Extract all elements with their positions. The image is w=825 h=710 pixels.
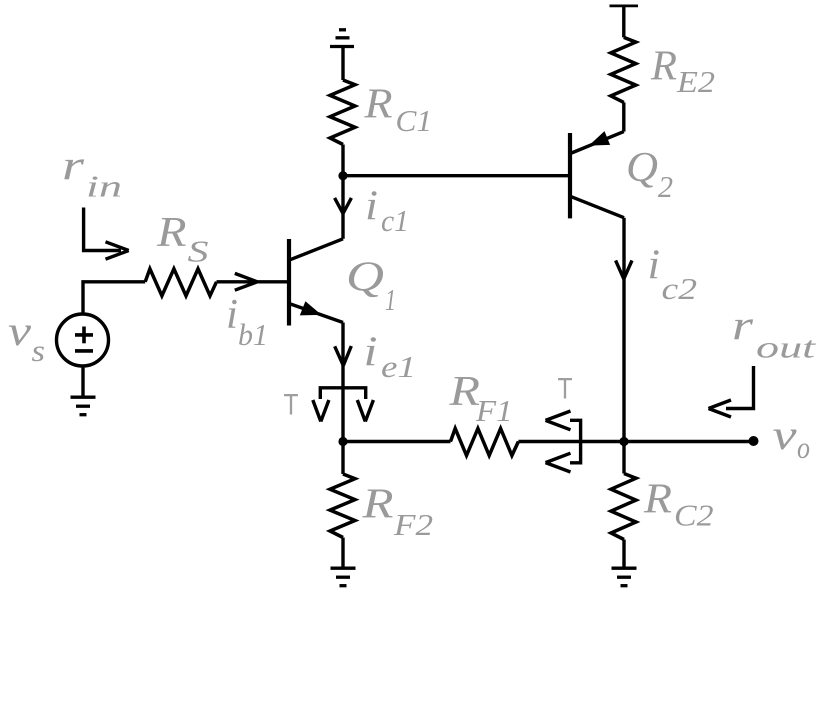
label ib1 [226,292,268,352]
svg-text:out: out [756,330,817,365]
svg-text:v: v [8,309,31,355]
resistor RC2 [622,442,625,474]
label RC2 [643,477,714,533]
svg-text:i: i [226,292,238,338]
wire node A down to Q1 collector [341,176,344,239]
svg-text:r: r [732,303,754,349]
svg-text:r: r [62,144,85,190]
arrow ic2 [616,260,632,279]
svg-text:F1: F1 [475,393,513,428]
label RE2 [650,43,715,99]
svg-text:T: T [558,373,573,406]
label Q1 [346,255,396,318]
source vs [57,314,109,366]
node C [619,437,628,446]
svg-text:Q: Q [626,145,658,191]
ground (below vs) [71,397,96,415]
svg-text:R: R [361,481,393,527]
label T1 [284,389,299,422]
svg-text:in: in [86,169,122,204]
svg-text:b1: b1 [238,317,268,352]
Q1 emitter arrowhead [300,301,322,315]
ground (below RF2) [331,568,356,586]
wire vs to ground [81,366,84,397]
svg-text:R: R [643,477,672,523]
node A [338,171,347,180]
label rin [62,144,122,204]
svg-text:R: R [156,210,187,256]
svg-text:c2: c2 [662,271,698,306]
label RS [156,210,209,269]
resistor RF1 [451,429,519,456]
loop probe T2 [570,420,581,463]
label vo [773,413,811,465]
svg-text:C1: C1 [396,103,433,138]
wire RF1 to node C [518,440,624,443]
svg-text:o: o [797,430,810,465]
label RC1 [363,82,432,139]
svg-text:E2: E2 [676,64,715,99]
svg-text:i: i [364,330,378,376]
arrow ic1 [335,198,352,214]
label rout [732,303,817,364]
wire Q2 collector down to node C [622,218,625,442]
arrow rout [709,366,754,417]
arrow ie1 [335,346,352,366]
label ic1 [365,184,409,239]
svg-text:1: 1 [385,282,396,317]
wire node C to output terminal [624,440,754,443]
svg-text:i: i [648,243,661,289]
resistor RS [145,269,216,296]
label RF2 [361,481,433,542]
ground (inverted, above RC1) [330,30,354,47]
wire RE2 to Q2 emitter [622,102,625,131]
svg-text:c1: c1 [381,203,409,238]
label RF1 [448,369,512,428]
svg-text:R: R [363,82,392,128]
svg-text:Q: Q [346,255,384,301]
svg-text:2: 2 [658,169,673,204]
svg-text:s: s [32,333,46,368]
arrow rin [84,208,129,260]
svg-text:i: i [365,184,378,230]
svg-text:v: v [773,413,797,459]
node B [338,437,347,446]
transistor Q1 [287,239,291,326]
transistor Q2 [568,133,572,218]
wire node B to RF1 [343,440,451,443]
svg-text:T: T [284,389,299,422]
resistor RF2 [341,442,344,475]
loop probe T1 [320,388,365,399]
wire vs to RS [83,282,145,314]
Q2 emitter arrowhead (PNP) [589,131,610,146]
label ie1 [364,330,417,385]
svg-text:C2: C2 [674,498,714,533]
wire RC1 to node A [341,145,344,176]
supply rail (above RE2) [610,5,639,8]
wire node A to Q2 base [343,174,568,177]
resistor RE2 [611,37,636,102]
ground (below RC2) [612,568,637,586]
svg-text:R: R [650,43,677,89]
resistor RC1 [330,80,355,145]
label T2 [558,373,573,406]
svg-text:F2: F2 [393,507,433,542]
wire ground to RC1 [341,47,344,81]
label ic2 [648,243,698,306]
wire RS to Q1 base [217,280,288,283]
terminal vo [749,436,759,446]
label Q2 [626,145,673,204]
svg-text:e1: e1 [381,349,416,384]
label vs [8,309,45,368]
wire Q1 emitter down to node B [341,323,344,442]
svg-text:S: S [188,234,209,269]
arrow ib1 [235,273,257,290]
